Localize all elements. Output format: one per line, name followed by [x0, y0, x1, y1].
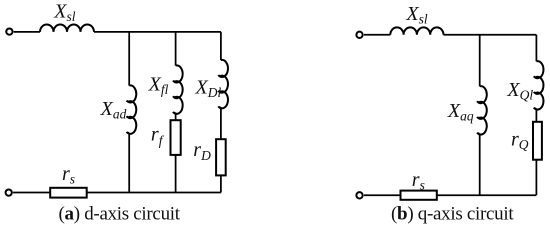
svg-text:XDl: XDl: [195, 76, 222, 100]
wire: [535, 108, 537, 121]
svg-text:rs: rs: [62, 163, 75, 187]
wire: [364, 194, 401, 196]
wire: [220, 107, 222, 139]
svg-text:rD: rD: [193, 139, 211, 163]
svg-text:rf: rf: [151, 124, 165, 149]
wire branch Xad: [128, 32, 130, 86]
svg-text:Xad: Xad: [100, 98, 127, 122]
wire: [128, 133, 130, 193]
inductor Xsl (b): [390, 27, 443, 34]
wire: [13, 192, 50, 194]
wire: [94, 31, 221, 33]
wire: [220, 175, 222, 192]
inductor Xsl (a): [40, 24, 94, 31]
svg-text:Xfl: Xfl: [148, 74, 169, 98]
inductor XQl: [534, 61, 544, 109]
wire: [364, 34, 390, 36]
wire: [444, 34, 537, 36]
inductor Xfl: [173, 65, 183, 113]
inductor Xaq: [477, 86, 487, 134]
inductor XDl: [218, 60, 228, 108]
wire: [175, 113, 177, 121]
wire branch XQl: [535, 35, 537, 62]
wire branch XDl: [220, 32, 222, 60]
resistor rf: [171, 120, 181, 155]
svg-text:(b) q-axis circuit: (b) q-axis circuit: [391, 204, 514, 225]
wire: [437, 194, 537, 196]
svg-text:Xaq: Xaq: [447, 100, 474, 124]
resistor rs (a): [50, 188, 86, 198]
svg-text:XQl: XQl: [506, 79, 533, 103]
terminal (b) bottom: [356, 192, 362, 198]
wire branch Xaq: [479, 35, 481, 87]
resistor rs (b): [401, 191, 437, 200]
wire: [87, 192, 221, 194]
terminal (b) top: [356, 32, 362, 38]
wire: [14, 31, 40, 33]
svg-text:rs: rs: [412, 169, 425, 193]
svg-text:rQ: rQ: [511, 128, 529, 152]
inductor Xad: [127, 85, 137, 133]
wire: [535, 160, 537, 195]
svg-text:(a) d-axis circuit: (a) d-axis circuit: [59, 204, 181, 225]
terminal (a) top: [6, 28, 12, 34]
wire branch Xfl: [175, 32, 177, 66]
resistor rD: [216, 139, 226, 175]
svg-text:Xsl: Xsl: [53, 0, 75, 24]
terminal (a) bottom: [6, 189, 12, 195]
svg-text:Xsl: Xsl: [405, 3, 427, 27]
wire: [175, 155, 177, 193]
resistor rQ: [533, 122, 542, 160]
wire: [479, 133, 481, 195]
